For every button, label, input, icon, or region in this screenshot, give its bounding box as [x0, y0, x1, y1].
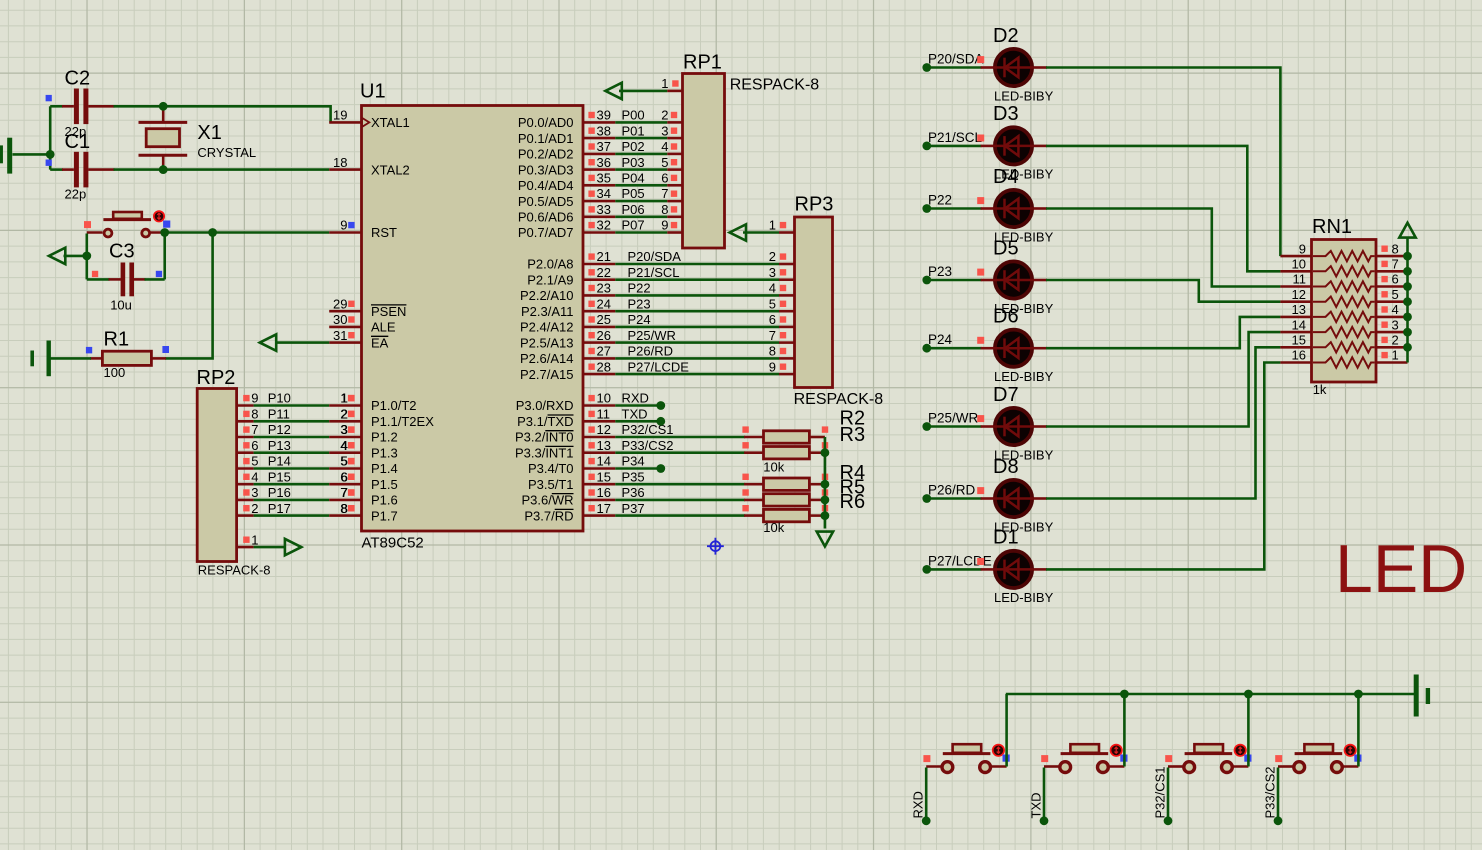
svg-text:RXD: RXD: [911, 791, 926, 818]
svg-text:17: 17: [597, 501, 611, 516]
svg-text:P23: P23: [628, 296, 651, 311]
svg-text:P0.5/AD5: P0.5/AD5: [518, 194, 574, 209]
svg-text:P1.2: P1.2: [371, 430, 398, 445]
svg-text:P06: P06: [622, 202, 645, 217]
svg-text:XTAL2: XTAL2: [371, 162, 410, 177]
svg-text:RN1: RN1: [1312, 216, 1352, 238]
svg-text:8: 8: [769, 344, 776, 359]
svg-text:10: 10: [597, 391, 611, 406]
svg-text:4: 4: [769, 281, 776, 296]
svg-text:8: 8: [1392, 241, 1399, 256]
svg-text:D4: D4: [993, 166, 1019, 188]
svg-text:P25/WR: P25/WR: [928, 411, 979, 426]
svg-text:PSEN: PSEN: [371, 304, 406, 319]
svg-text:RST: RST: [371, 225, 397, 240]
svg-text:15: 15: [1292, 333, 1306, 348]
svg-text:5: 5: [661, 155, 668, 170]
svg-text:6: 6: [251, 438, 258, 453]
svg-text:P20/SDA: P20/SDA: [928, 52, 984, 67]
svg-text:EA: EA: [371, 335, 389, 350]
svg-text:3: 3: [341, 422, 348, 437]
svg-text:P16: P16: [268, 485, 291, 500]
svg-text:P3.3/INT1: P3.3/INT1: [515, 445, 574, 460]
svg-text:3: 3: [661, 123, 668, 138]
svg-text:P0.7/AD7: P0.7/AD7: [518, 225, 574, 240]
svg-text:P3.7/RD: P3.7/RD: [524, 508, 573, 523]
svg-text:TXD: TXD: [1029, 793, 1044, 819]
svg-text:P0.0/AD0: P0.0/AD0: [518, 115, 574, 130]
svg-text:P2.3/A11: P2.3/A11: [521, 304, 574, 319]
svg-text:1: 1: [1392, 348, 1399, 363]
svg-text:X1: X1: [197, 122, 221, 144]
svg-text:12: 12: [597, 422, 611, 437]
svg-text:7: 7: [341, 485, 348, 500]
svg-text:24: 24: [597, 296, 611, 311]
svg-text:P22: P22: [928, 193, 952, 208]
svg-text:2: 2: [769, 249, 776, 264]
svg-text:7: 7: [769, 328, 776, 343]
svg-text:1: 1: [769, 218, 776, 233]
svg-text:9: 9: [1299, 241, 1306, 256]
svg-text:14: 14: [1292, 317, 1306, 332]
svg-text:2: 2: [1392, 333, 1399, 348]
svg-text:P0.4/AD4: P0.4/AD4: [518, 178, 574, 193]
svg-text:9: 9: [769, 359, 776, 374]
svg-text:P3.0/RXD: P3.0/RXD: [516, 398, 574, 413]
svg-text:P25/WR: P25/WR: [628, 328, 676, 343]
svg-text:P33/CS2: P33/CS2: [622, 438, 674, 453]
svg-text:P32/CS1: P32/CS1: [622, 422, 674, 437]
svg-text:P24: P24: [628, 312, 651, 327]
svg-text:R6: R6: [840, 491, 866, 513]
svg-text:5: 5: [341, 454, 348, 469]
svg-text:5: 5: [1392, 287, 1399, 302]
svg-text:1: 1: [341, 391, 348, 406]
svg-text:34: 34: [597, 186, 611, 201]
svg-text:P1.0/T2: P1.0/T2: [371, 398, 417, 413]
svg-text:LED: LED: [1335, 531, 1467, 607]
svg-text:18: 18: [333, 155, 347, 170]
svg-text:30: 30: [333, 312, 347, 327]
svg-text:D3: D3: [993, 103, 1019, 125]
svg-text:26: 26: [597, 328, 611, 343]
svg-text:100: 100: [104, 365, 126, 380]
svg-text:RESPACK-8: RESPACK-8: [730, 77, 820, 94]
svg-text:XTAL1: XTAL1: [371, 115, 410, 130]
svg-text:P26/RD: P26/RD: [628, 344, 674, 359]
svg-text:P10: P10: [268, 391, 291, 406]
svg-text:P3.1/TXD: P3.1/TXD: [517, 414, 573, 429]
svg-text:RESPACK-8: RESPACK-8: [198, 563, 271, 578]
svg-text:23: 23: [597, 281, 611, 296]
svg-text:11: 11: [1293, 272, 1307, 287]
svg-text:P37: P37: [622, 501, 645, 516]
svg-text:21: 21: [597, 249, 611, 264]
svg-text:4: 4: [661, 139, 668, 154]
svg-text:P15: P15: [268, 469, 291, 484]
svg-text:P1.7: P1.7: [371, 508, 398, 523]
svg-text:14: 14: [597, 454, 611, 469]
svg-text:D6: D6: [993, 306, 1019, 328]
svg-text:C2: C2: [65, 68, 91, 90]
svg-text:10u: 10u: [110, 297, 132, 312]
svg-text:25: 25: [597, 312, 611, 327]
svg-text:7: 7: [251, 422, 258, 437]
svg-text:P2.5/A13: P2.5/A13: [520, 335, 574, 350]
svg-text:P32/CS1: P32/CS1: [1153, 766, 1168, 818]
svg-text:P03: P03: [622, 155, 645, 170]
svg-text:P3.6/WR: P3.6/WR: [521, 493, 573, 508]
svg-text:2: 2: [661, 108, 668, 123]
svg-text:13: 13: [597, 438, 611, 453]
svg-text:1k: 1k: [1313, 382, 1327, 397]
svg-text:D7: D7: [993, 384, 1019, 406]
svg-text:P1.3: P1.3: [371, 445, 398, 460]
svg-text:D5: D5: [993, 237, 1019, 259]
svg-text:P01: P01: [622, 123, 645, 138]
svg-text:P21/SCL: P21/SCL: [928, 130, 983, 145]
svg-text:U1: U1: [360, 81, 386, 103]
svg-text:22: 22: [597, 265, 611, 280]
svg-text:16: 16: [1292, 348, 1306, 363]
svg-text:P22: P22: [628, 281, 651, 296]
svg-text:8: 8: [661, 202, 668, 217]
svg-text:22p: 22p: [65, 187, 87, 202]
svg-text:P12: P12: [268, 422, 291, 437]
svg-text:7: 7: [661, 186, 668, 201]
svg-text:P0.3/AD3: P0.3/AD3: [518, 162, 574, 177]
svg-text:D8: D8: [993, 456, 1019, 478]
svg-text:P3.2/INT0: P3.2/INT0: [515, 430, 574, 445]
svg-text:15: 15: [597, 469, 611, 484]
svg-text:4: 4: [1392, 302, 1399, 317]
svg-text:6: 6: [1392, 272, 1399, 287]
svg-text:P36: P36: [622, 485, 645, 500]
svg-text:P1.4: P1.4: [371, 461, 398, 476]
svg-text:10k: 10k: [763, 520, 784, 535]
svg-text:P2.6/A14: P2.6/A14: [520, 351, 574, 366]
svg-text:P1.6: P1.6: [371, 493, 398, 508]
svg-text:P21/SCL: P21/SCL: [628, 265, 680, 280]
svg-text:9: 9: [251, 391, 258, 406]
svg-text:P1.1/T2EX: P1.1/T2EX: [371, 414, 434, 429]
svg-text:6: 6: [341, 469, 348, 484]
svg-text:6: 6: [661, 171, 668, 186]
svg-text:R1: R1: [104, 328, 130, 350]
svg-text:D2: D2: [993, 25, 1019, 47]
svg-text:2: 2: [341, 407, 348, 422]
svg-text:31: 31: [333, 328, 347, 343]
svg-text:P3.5/T1: P3.5/T1: [528, 477, 574, 492]
svg-text:12: 12: [1292, 287, 1306, 302]
svg-text:P02: P02: [622, 139, 645, 154]
svg-text:4: 4: [251, 469, 258, 484]
svg-text:39: 39: [597, 108, 611, 123]
svg-text:36: 36: [597, 155, 611, 170]
svg-text:P20/SDA: P20/SDA: [628, 249, 682, 264]
svg-text:27: 27: [597, 344, 611, 359]
svg-text:LED-BIBY: LED-BIBY: [994, 88, 1054, 103]
svg-text:10: 10: [1292, 257, 1306, 272]
svg-text:AT89C52: AT89C52: [362, 535, 424, 552]
svg-text:2: 2: [251, 501, 258, 516]
svg-text:P05: P05: [622, 186, 645, 201]
svg-text:LED-BIBY: LED-BIBY: [994, 369, 1054, 384]
svg-text:29: 29: [333, 296, 347, 311]
svg-text:P00: P00: [622, 108, 645, 123]
svg-text:P34: P34: [622, 454, 645, 469]
svg-text:P14: P14: [268, 454, 291, 469]
svg-text:3: 3: [251, 485, 258, 500]
svg-text:D1: D1: [993, 527, 1019, 549]
svg-text:9: 9: [661, 218, 668, 233]
svg-text:P2.4/A12: P2.4/A12: [520, 320, 574, 335]
svg-text:ALE: ALE: [371, 320, 396, 335]
svg-text:P24: P24: [928, 332, 953, 347]
svg-text:10k: 10k: [763, 460, 784, 475]
svg-text:1: 1: [661, 76, 668, 91]
svg-text:P13: P13: [268, 438, 291, 453]
svg-text:6: 6: [769, 312, 776, 327]
svg-text:37: 37: [597, 139, 611, 154]
svg-text:8: 8: [341, 501, 348, 516]
svg-text:P0.6/AD6: P0.6/AD6: [518, 210, 574, 225]
svg-text:4: 4: [341, 438, 348, 453]
svg-text:P35: P35: [622, 469, 645, 484]
svg-text:TXD: TXD: [622, 407, 648, 422]
svg-text:P2.0/A8: P2.0/A8: [527, 257, 573, 272]
svg-text:28: 28: [597, 359, 611, 374]
svg-text:RESPACK-8: RESPACK-8: [794, 391, 884, 408]
svg-text:38: 38: [597, 123, 611, 138]
svg-text:RP1: RP1: [683, 52, 722, 74]
svg-text:P2.7/A15: P2.7/A15: [520, 367, 574, 382]
svg-text:19: 19: [333, 108, 347, 123]
svg-text:P26/RD: P26/RD: [928, 483, 976, 498]
svg-text:8: 8: [251, 407, 258, 422]
svg-text:P23: P23: [928, 264, 952, 279]
svg-text:RP2: RP2: [197, 367, 236, 389]
svg-text:C3: C3: [109, 240, 135, 262]
svg-text:R3: R3: [840, 424, 866, 446]
svg-text:P11: P11: [268, 407, 290, 422]
svg-text:P3.4/T0: P3.4/T0: [528, 461, 574, 476]
svg-text:16: 16: [597, 485, 611, 500]
svg-text:P17: P17: [268, 501, 291, 516]
svg-text:5: 5: [251, 454, 258, 469]
svg-text:5: 5: [769, 296, 776, 311]
svg-text:9: 9: [340, 218, 347, 233]
svg-text:P33/CS2: P33/CS2: [1263, 766, 1278, 818]
svg-text:C1: C1: [65, 131, 91, 153]
svg-text:P27/LCDE: P27/LCDE: [628, 359, 690, 374]
svg-text:RP3: RP3: [795, 194, 834, 216]
svg-text:11: 11: [597, 407, 611, 422]
svg-text:P2.1/A9: P2.1/A9: [527, 272, 573, 287]
svg-text:P04: P04: [622, 171, 645, 186]
svg-text:13: 13: [1292, 302, 1306, 317]
svg-text:RXD: RXD: [622, 391, 649, 406]
svg-text:LED-BIBY: LED-BIBY: [994, 590, 1054, 605]
svg-text:32: 32: [597, 218, 611, 233]
svg-text:P2.2/A10: P2.2/A10: [520, 288, 574, 303]
svg-text:3: 3: [1392, 317, 1399, 332]
svg-text:33: 33: [597, 202, 611, 217]
svg-text:35: 35: [597, 171, 611, 186]
svg-text:3: 3: [769, 265, 776, 280]
svg-text:P0.1/AD1: P0.1/AD1: [518, 131, 574, 146]
svg-text:P0.2/AD2: P0.2/AD2: [518, 147, 574, 162]
svg-text:1: 1: [251, 532, 258, 547]
svg-text:7: 7: [1392, 257, 1399, 272]
svg-text:P07: P07: [622, 218, 645, 233]
svg-text:CRYSTAL: CRYSTAL: [197, 145, 256, 160]
svg-text:P1.5: P1.5: [371, 477, 398, 492]
